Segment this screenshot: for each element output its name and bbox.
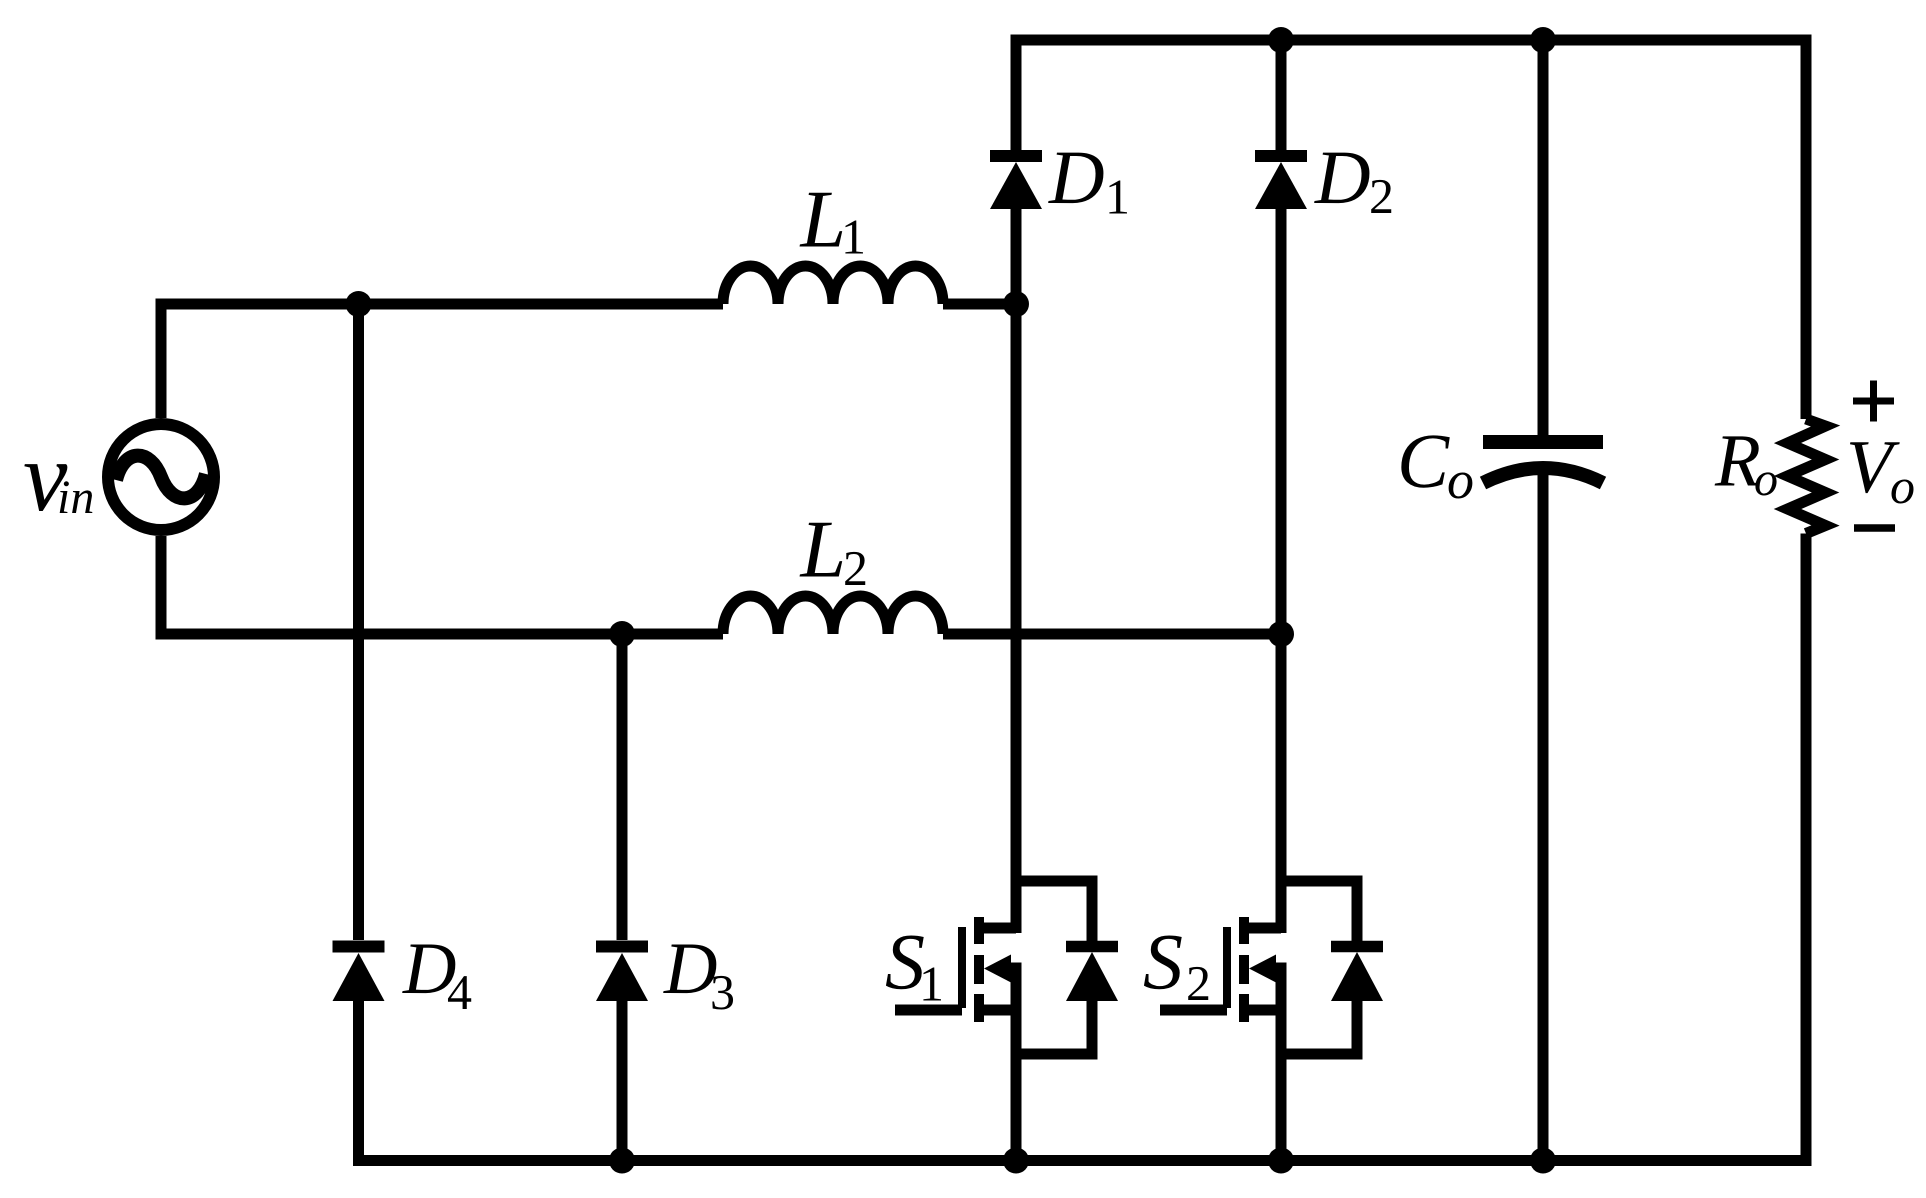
ac source vin <box>108 424 214 530</box>
wire L2 to node B <box>943 629 1281 640</box>
svg-text:D: D <box>1314 134 1371 220</box>
node B dot: L2 / D2 / S2 <box>1268 621 1294 647</box>
svg-text:2: 2 <box>1369 168 1394 224</box>
svg-text:S: S <box>1143 919 1183 1007</box>
node dot bottom rail / S2 <box>1268 1148 1294 1174</box>
label minus sign <box>1854 524 1895 532</box>
transistor S2 (MOSFET with body diode) <box>1160 634 1383 1161</box>
node dot bottom rail / Co <box>1530 1148 1556 1174</box>
node dot bottom rail / S1 <box>1003 1148 1029 1174</box>
label D4 <box>402 928 472 1020</box>
diode D2 <box>1255 35 1307 635</box>
inductor L1 <box>723 266 943 304</box>
wire L1 to node A <box>943 299 1016 310</box>
node dot top wire / D4 branch <box>346 291 372 317</box>
svg-text:D: D <box>1048 134 1105 220</box>
diode D3 <box>596 634 648 1161</box>
wire top row from vin to L1 <box>156 299 724 310</box>
label plus sign <box>1853 381 1894 422</box>
svg-text:in: in <box>57 471 94 524</box>
resistor Ro <box>1788 35 1826 1167</box>
wire bottom rail <box>353 1155 1812 1166</box>
inductor L2 <box>723 596 943 634</box>
svg-text:L: L <box>800 174 847 265</box>
svg-text:C: C <box>1397 417 1450 504</box>
label Vo <box>1846 425 1915 514</box>
label D1 <box>1048 134 1130 225</box>
svg-text:2: 2 <box>1186 955 1211 1011</box>
wire mid row from vin to L2 <box>156 629 724 640</box>
svg-text:1: 1 <box>919 956 944 1012</box>
label L1 <box>800 174 867 265</box>
node dot top rail / Co <box>1530 27 1556 53</box>
svg-text:o: o <box>1754 453 1778 506</box>
diode D1 <box>990 35 1042 305</box>
label L2 <box>800 504 869 597</box>
svg-text:1: 1 <box>841 209 866 265</box>
diode D4 <box>333 304 385 1166</box>
capacitor Co <box>1483 35 1603 1161</box>
svg-text:o: o <box>1447 450 1474 510</box>
label vin <box>23 421 94 532</box>
svg-text:L: L <box>800 504 847 595</box>
wire top rail <box>1011 35 1812 46</box>
label D2 <box>1314 134 1394 224</box>
label S1 <box>885 919 944 1012</box>
node dot bottom rail / D3 <box>609 1148 635 1174</box>
svg-text:4: 4 <box>447 964 472 1020</box>
transistor S1 (MOSFET with body diode) <box>895 304 1118 1161</box>
svg-text:o: o <box>1890 458 1915 514</box>
node dot mid wire / D3 branch <box>609 621 635 647</box>
wire vin bottom lead <box>156 536 167 640</box>
label D3 <box>663 928 735 1020</box>
node A dot: L1 / D1 / S1 <box>1003 291 1029 317</box>
svg-text:1: 1 <box>1105 169 1130 225</box>
node dot top rail / D2 <box>1268 27 1294 53</box>
wire vin top lead <box>156 299 167 419</box>
label S2 <box>1143 919 1211 1012</box>
svg-text:2: 2 <box>843 540 868 596</box>
svg-text:3: 3 <box>710 964 735 1020</box>
label Ro <box>1714 420 1778 507</box>
label Co <box>1397 417 1474 510</box>
